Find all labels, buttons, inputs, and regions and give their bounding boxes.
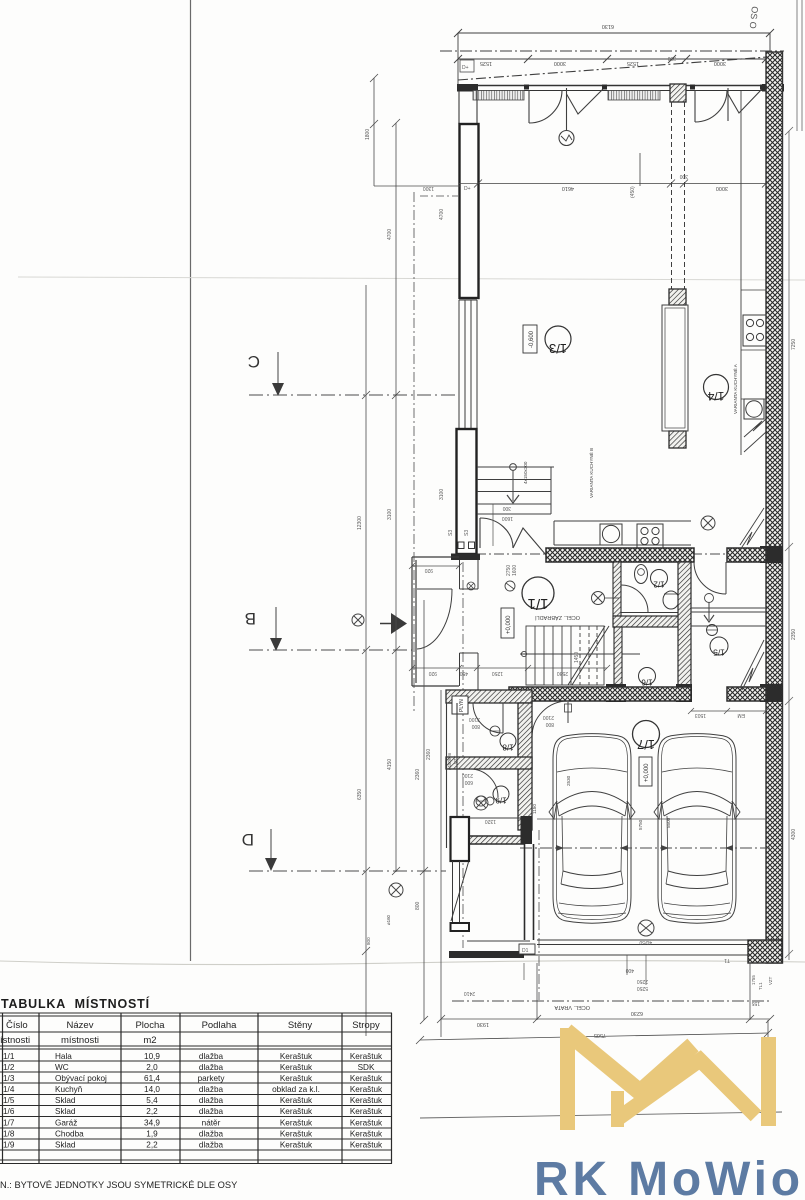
svg-text:1/7: 1/7	[3, 1119, 15, 1128]
svg-text:1/5: 1/5	[3, 1096, 15, 1105]
svg-text:S3: S3	[464, 530, 470, 536]
svg-text:1/8: 1/8	[3, 1130, 15, 1139]
svg-text:RK MoWio: RK MoWio	[534, 1153, 804, 1200]
top dimension line segments	[454, 55, 770, 63]
living room label 1/3	[545, 326, 571, 356]
garage left wall lower (inner)	[525, 844, 534, 940]
door garage to 1/8	[532, 701, 572, 737]
kitchen partition pier low	[669, 431, 686, 448]
svg-text:OCEL. VRATA: OCEL. VRATA	[554, 1004, 590, 1010]
svg-text:920: 920	[424, 567, 433, 573]
svg-text:Keraštuk: Keraštuk	[280, 1063, 313, 1072]
svg-text:5,4: 5,4	[146, 1096, 158, 1105]
svg-text:3100: 3100	[387, 509, 393, 520]
svg-text:Plocha: Plocha	[135, 1020, 165, 1031]
outer wall pillar left of niche	[451, 817, 470, 861]
svg-text:7505: 7505	[594, 1032, 606, 1038]
garage label 1/7	[633, 721, 660, 753]
garage dim line mid	[537, 818, 766, 820]
main stairs block	[520, 626, 640, 685]
car 2	[654, 734, 740, 924]
entrance door leaf and arc	[417, 589, 452, 649]
svg-text:1525: 1525	[480, 60, 492, 66]
svg-text:dlažba: dlažba	[199, 1096, 224, 1105]
svg-text:S3: S3	[448, 530, 454, 536]
svg-text:T1: T1	[724, 957, 730, 963]
logo M chevron	[566, 1031, 693, 1092]
right margin dim line	[785, 127, 793, 960]
room 1/5 door arc	[694, 562, 726, 594]
rooms table data	[3, 1052, 383, 1150]
svg-text:Keraštuk: Keraštuk	[350, 1119, 383, 1128]
svg-text:místnosti: místnosti	[61, 1035, 99, 1046]
dim row below 1/5	[688, 708, 769, 714]
svg-text:5500: 5500	[666, 817, 671, 828]
kitchen A stove	[743, 315, 766, 346]
svg-text:N.: BYTOVÉ JEDNOTKY JSOU SYMET: N.: BYTOVÉ JEDNOTKY JSOU SYMETRICKÉ DLE …	[0, 1180, 237, 1190]
1/9 floor drain circle	[474, 796, 494, 810]
svg-text:4700: 4700	[439, 209, 445, 220]
left wall window (living room)	[459, 300, 477, 429]
rooms table header	[0, 1020, 380, 1046]
svg-text:300: 300	[679, 173, 688, 179]
circled cross symbol left of wc	[592, 592, 620, 605]
svg-text:300: 300	[502, 505, 511, 511]
svg-text:C: C	[248, 352, 260, 371]
svg-text:1250: 1250	[492, 670, 503, 676]
bottom right corner hatched block	[748, 940, 782, 963]
wc basin	[635, 565, 648, 584]
top dimension line 6130	[454, 29, 774, 86]
black junction stair wall left	[606, 684, 626, 702]
svg-text:1/7: 1/7	[637, 737, 655, 752]
small circled cross hall	[467, 582, 475, 590]
svg-text:nátěr: nátěr	[202, 1119, 221, 1128]
svg-text:1320: 1320	[485, 818, 496, 824]
entrance arrow	[391, 613, 407, 634]
svg-text:800: 800	[366, 937, 371, 945]
left wall S3 boxes	[458, 542, 464, 549]
svg-text:4700: 4700	[387, 229, 393, 240]
faint scan artifact line upper	[18, 277, 805, 280]
svg-text:2410: 2410	[464, 990, 475, 996]
wc room outline	[613, 562, 682, 616]
svg-text:Podlaha: Podlaha	[202, 1020, 238, 1031]
wall bottom of 1/9	[469, 836, 524, 844]
section marker C	[248, 352, 458, 396]
PLYN box	[452, 696, 468, 714]
svg-text:2530: 2530	[566, 775, 571, 786]
svg-text:dlažba: dlažba	[199, 1063, 224, 1072]
svg-text:Číslo: Číslo	[6, 1020, 28, 1031]
svg-text:parkety: parkety	[198, 1074, 226, 1083]
svg-text:Stropy: Stropy	[352, 1020, 380, 1031]
svg-text:1/2: 1/2	[3, 1063, 15, 1072]
long thin line through logo	[420, 1112, 782, 1118]
svg-text:(450): (450)	[630, 186, 636, 198]
svg-text:D+: D+	[462, 65, 469, 71]
svg-text:1/9: 1/9	[3, 1141, 15, 1150]
wall hall/1-6 hatched strip	[614, 627, 622, 685]
svg-text:Sklad: Sklad	[55, 1096, 76, 1105]
left wall pillar segment 1 (white with thick border)	[460, 124, 479, 298]
garage door lines	[524, 940, 766, 955]
svg-text:1503: 1503	[695, 712, 706, 718]
room 1/9 door arc	[470, 769, 498, 797]
svg-text:Keraštuk: Keraštuk	[280, 1074, 313, 1083]
svg-text:WC: WC	[55, 1063, 69, 1072]
svg-text:Název: Název	[67, 1020, 94, 1031]
svg-text:PLYN: PLYN	[459, 699, 465, 712]
garage axis dash-dot with arrows	[520, 847, 770, 849]
left vertical dim line D (x=424)	[420, 600, 428, 1024]
svg-text:Obývací pokoj: Obývací pokoj	[55, 1074, 107, 1083]
car 1	[549, 734, 635, 924]
top wall centre pier (hatched)	[670, 84, 686, 102]
svg-text:1930: 1930	[477, 1021, 489, 1027]
svg-text:Hala: Hala	[55, 1052, 72, 1061]
svg-text:2100: 2100	[543, 714, 554, 720]
wc door arc	[621, 585, 648, 612]
svg-text:1/1: 1/1	[3, 1052, 15, 1061]
svg-text:300: 300	[667, 55, 676, 61]
svg-text:1/2: 1/2	[653, 580, 665, 589]
svg-text:Keraštuk: Keraštuk	[350, 1141, 383, 1150]
kitchen A counter module lines	[741, 290, 766, 399]
faint scan artifact line lower	[0, 961, 805, 965]
left wall bottom cap	[451, 554, 480, 561]
right exterior wall (cross hatched)	[766, 52, 783, 963]
radiator right under window	[608, 91, 660, 101]
circled cross above 1/5	[701, 516, 715, 530]
svg-text:2360: 2360	[415, 769, 421, 780]
top dash-dot axis	[440, 50, 784, 52]
french door 1	[529, 88, 603, 131]
hall west wall lines	[460, 560, 479, 690]
black junction right of 1/9	[521, 816, 533, 844]
wall band living/hall left part	[546, 548, 694, 562]
wall right of 1/8 1/9	[518, 703, 532, 830]
svg-text:1525: 1525	[627, 60, 639, 66]
alcove dim line	[409, 563, 462, 569]
svg-text:12300: 12300	[357, 516, 363, 530]
1/5 mid lines	[691, 608, 766, 626]
door jamb marks on top wall	[524, 85, 764, 90]
kitchen A counter edge	[740, 91, 742, 455]
black junction 1/6 wall right	[676, 684, 692, 702]
logo W zigzag	[616, 1060, 756, 1120]
hall west wall axis dash-dot	[462, 562, 464, 948]
svg-text:m2: m2	[143, 1035, 156, 1046]
top wall black corner right	[762, 84, 784, 92]
svg-text:+0,000: +0,000	[644, 763, 650, 782]
svg-text:1/4: 1/4	[707, 389, 724, 403]
svg-text:920: 920	[428, 670, 437, 676]
bottom dim line 2 full width	[416, 1020, 772, 1044]
1/9 interior shelf line	[454, 817, 526, 819]
svg-text:1800: 1800	[365, 129, 371, 140]
svg-text:dlažba: dlažba	[199, 1107, 224, 1116]
svg-text:1/9: 1/9	[495, 796, 507, 805]
svg-text:Keraštuk: Keraštuk	[280, 1107, 313, 1116]
bottom dash-dot axis	[452, 1000, 770, 1002]
svg-text:4150: 4150	[387, 759, 393, 770]
svg-text:Keraštuk: Keraštuk	[280, 1052, 313, 1061]
1/5 down arrow	[705, 594, 714, 603]
svg-text:1/6: 1/6	[641, 678, 653, 687]
svg-text:3000: 3000	[554, 60, 566, 66]
garage drain circle	[638, 920, 654, 936]
wall 1/6 right hatched	[678, 562, 691, 688]
room 1/8 door arc	[473, 703, 503, 733]
garage door axis dash-dot vertical	[538, 830, 540, 1000]
kitchen counter variant B along partition	[662, 305, 688, 431]
logo W short bar	[611, 1091, 624, 1127]
svg-text:Keraštuk: Keraštuk	[350, 1052, 383, 1061]
svg-text:1/4: 1/4	[3, 1085, 15, 1094]
outer wall pillar 2	[451, 923, 470, 931]
svg-text:2360: 2360	[426, 749, 432, 760]
svg-text:Keraštuk: Keraštuk	[350, 1107, 383, 1116]
left wall of 1/8 1/9	[447, 703, 458, 848]
wc toilet	[663, 591, 679, 609]
left vertical dim line A (x=366)	[362, 285, 370, 1036]
svg-text:600: 600	[464, 779, 473, 785]
svg-text:VZT: VZT	[768, 976, 773, 985]
svg-text:6350: 6350	[357, 789, 363, 800]
wc label 1/2	[651, 570, 668, 589]
svg-text:1/6: 1/6	[3, 1107, 15, 1116]
room 1/8 label	[490, 726, 516, 752]
kitchen partition dashed lines upper	[672, 102, 685, 289]
bottom dim vertical connectors	[537, 33, 770, 1020]
svg-text:1/8: 1/8	[502, 743, 514, 752]
corner marker box top-left	[460, 60, 474, 72]
axis dash-dot through mid walls	[476, 553, 766, 555]
radiator left under window	[473, 91, 524, 101]
hall level box +0,000	[501, 608, 514, 638]
wc left wall hatched	[613, 562, 621, 616]
svg-text:450: 450	[459, 670, 468, 676]
bottom small ticks row	[524, 955, 646, 985]
svg-text:3000: 3000	[716, 185, 728, 191]
svg-text:2,0: 2,0	[146, 1063, 158, 1072]
svg-text:1,9: 1,9	[146, 1130, 158, 1139]
svg-text:5250: 5250	[637, 985, 648, 991]
room 1/9 label	[476, 786, 509, 806]
svg-text:dlažba: dlažba	[199, 1141, 224, 1150]
svg-text:Keraštuk: Keraštuk	[350, 1096, 383, 1105]
svg-text:1/3: 1/3	[549, 341, 567, 356]
break marks right strip 2	[740, 508, 764, 550]
svg-text:155: 155	[751, 1000, 760, 1006]
circle symbol on B axis	[352, 614, 364, 626]
svg-text:TABULKA MÍSTNOSTÍ: TABULKA MÍSTNOSTÍ	[1, 996, 150, 1011]
svg-text:1600: 1600	[512, 565, 518, 576]
left page border line	[190, 0, 192, 961]
black junction right wall lower band	[760, 684, 783, 702]
svg-text:2,2: 2,2	[146, 1107, 158, 1116]
dimension line 4610/3000 mid	[474, 153, 770, 188]
svg-text:1450: 1450	[574, 652, 580, 663]
svg-text:2100: 2100	[469, 716, 480, 722]
svg-text:Sklad: Sklad	[55, 1107, 76, 1116]
hall label 1/1	[522, 577, 554, 612]
svg-text:Sklad: Sklad	[55, 1141, 76, 1150]
svg-text:D+: D+	[464, 186, 471, 192]
break marks right strip 3	[740, 640, 764, 690]
svg-text:VZT: VZT	[453, 755, 458, 764]
garage level box	[639, 757, 652, 786]
svg-text:SDK: SDK	[358, 1063, 375, 1072]
stairs top circle and arrow	[510, 464, 517, 471]
svg-text:obklad za k.l.: obklad za k.l.	[272, 1085, 320, 1094]
entrance alcove outline	[412, 557, 459, 686]
svg-text:⌀150mm: ⌀150mm	[447, 752, 452, 770]
hall dim line above bottom wall	[409, 665, 610, 671]
svg-text:Keraštuk: Keraštuk	[280, 1096, 313, 1105]
svg-text:ístnosti: ístnosti	[0, 1035, 30, 1046]
left vertical dim line B (x=396)	[392, 119, 400, 875]
sloped dash-dot line above top wall	[458, 57, 768, 80]
svg-text:dlažba: dlažba	[199, 1085, 224, 1094]
hall small circle symbol	[505, 581, 515, 591]
wall hall/garage band	[509, 687, 691, 701]
svg-text:D1: D1	[522, 948, 529, 954]
svg-text:VARIANTA KUCHYNĚ A: VARIANTA KUCHYNĚ A	[731, 363, 738, 414]
wall band top of 1/8	[446, 690, 532, 703]
svg-text:1150: 1150	[532, 804, 537, 814]
svg-text:40/50: 40/50	[639, 939, 652, 945]
svg-text:6230: 6230	[631, 1010, 643, 1016]
svg-text:Keraštuk: Keraštuk	[350, 1085, 383, 1094]
svg-text:1/1: 1/1	[528, 595, 549, 612]
svg-text:3100: 3100	[439, 489, 445, 500]
svg-text:dlažba: dlažba	[199, 1130, 224, 1139]
svg-text:B: B	[245, 609, 256, 628]
svg-text:800: 800	[471, 723, 480, 729]
french door 2	[695, 88, 762, 122]
left exterior wall upper window strip	[459, 91, 477, 124]
hall door arcs below stairs	[480, 518, 546, 555]
svg-text:10,9: 10,9	[144, 1052, 160, 1061]
kitchen partition pier mid	[669, 289, 686, 305]
bottom exterior wall dark	[449, 951, 524, 958]
kitchen B stove	[637, 524, 663, 548]
svg-text:2100: 2100	[462, 772, 473, 778]
svg-text:1/5: 1/5	[713, 648, 725, 658]
kitchen A break marks	[744, 419, 766, 452]
top exterior wall	[458, 86, 784, 91]
svg-text:34,9: 34,9	[144, 1119, 160, 1128]
svg-text:1755: 1755	[751, 975, 756, 985]
logo M left bar	[560, 1028, 575, 1130]
svg-text:800: 800	[545, 721, 554, 727]
svg-text:+0,000: +0,000	[506, 615, 512, 634]
right margin double lines top	[796, 0, 798, 131]
svg-text:14,0: 14,0	[144, 1085, 160, 1094]
svg-text:2250: 2250	[637, 978, 648, 984]
rooms table grid	[0, 1013, 392, 1164]
bottom dim line 1	[437, 1015, 774, 1023]
circled cross on D axis	[389, 883, 403, 897]
D1 box	[519, 944, 535, 954]
svg-text:Chodba: Chodba	[55, 1130, 84, 1139]
svg-text:TL1: TL1	[758, 982, 763, 990]
room 1/6 label	[639, 668, 656, 687]
svg-text:2530: 2530	[557, 670, 568, 676]
svg-text:1/3: 1/3	[3, 1074, 15, 1083]
svg-text:Keraštuk: Keraštuk	[280, 1130, 313, 1139]
kitchen A sink	[744, 399, 764, 419]
svg-text:1600: 1600	[502, 515, 513, 521]
svg-text:7250: 7250	[791, 339, 797, 350]
svg-text:61,4: 61,4	[144, 1074, 160, 1083]
svg-text:D: D	[242, 830, 254, 849]
small dim under stairs	[492, 504, 494, 546]
svg-text:2350: 2350	[791, 629, 797, 640]
svg-text:-0,600: -0,600	[529, 330, 535, 348]
svg-text:400: 400	[625, 967, 634, 973]
garage door sill inner line	[467, 940, 530, 942]
svg-text:Kuchyň: Kuchyň	[55, 1085, 83, 1094]
left vertical dim line E (x=441)	[440, 690, 442, 1037]
section marker B	[245, 607, 412, 651]
svg-text:4300: 4300	[791, 829, 797, 840]
svg-text:Stěny: Stěny	[288, 1020, 313, 1031]
wall 1/5 band lower	[727, 687, 766, 701]
svg-text:2,2: 2,2	[146, 1141, 158, 1150]
svg-text:Garáž: Garáž	[55, 1119, 77, 1128]
svg-text:Keraštuk: Keraštuk	[280, 1119, 313, 1128]
section marker D	[242, 829, 446, 871]
kitchen B counter band	[554, 521, 691, 545]
svg-text:VARIANTA KUCHYNĚ B: VARIANTA KUCHYNĚ B	[587, 448, 594, 498]
svg-text:Keraštuk: Keraštuk	[350, 1074, 383, 1083]
svg-text:4610: 4610	[562, 185, 574, 191]
left vertical dim line C (x=374 top)	[370, 74, 460, 186]
wall band living/hall right part	[727, 548, 766, 562]
niche window	[451, 861, 469, 923]
entrance axis dash-dot vertical	[413, 192, 415, 712]
svg-text:Keraštuk: Keraštuk	[280, 1141, 313, 1150]
svg-text:4x150x300: 4x150x300	[523, 461, 528, 484]
svg-text:EM: EM	[738, 712, 746, 718]
svg-text:Keraštuk: Keraštuk	[350, 1130, 383, 1139]
wc bottom wall hatched	[613, 616, 682, 627]
top wall black corner left	[457, 84, 478, 92]
svg-text:800: 800	[415, 901, 421, 910]
kitchen room label 1/4	[704, 375, 729, 404]
wall between 1/8 and 1/9	[446, 757, 532, 769]
svg-text:dlažba: dlažba	[199, 1052, 224, 1061]
level box living room	[523, 325, 537, 353]
upper stairs treads	[477, 467, 554, 514]
logo monogram	[560, 1028, 776, 1130]
pendant circle symbol below door 1	[559, 131, 574, 146]
black junction right wall upper band	[760, 546, 783, 563]
svg-text:5750: 5750	[638, 819, 643, 830]
logo W right bar	[761, 1037, 776, 1126]
kitchen B sink	[600, 524, 622, 545]
room 1/5 labels	[707, 625, 729, 658]
left wall pillar segment 2 (white with thick border)	[457, 429, 477, 554]
svg-text:OCEL. ZÁBRADLÍ: OCEL. ZÁBRADLÍ	[535, 614, 580, 621]
svg-text:⌀160: ⌀160	[386, 914, 391, 925]
svg-text:6130: 6130	[602, 23, 614, 29]
